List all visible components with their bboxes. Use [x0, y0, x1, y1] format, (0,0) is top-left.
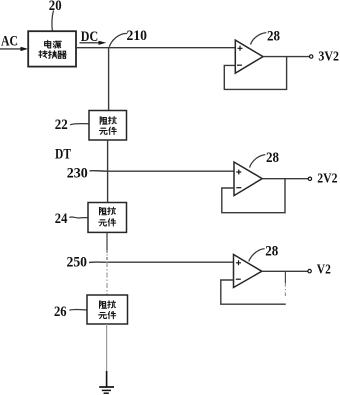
leader 28 top — [251, 33, 267, 45]
svg-text:28: 28 — [266, 150, 279, 166]
wire 250 to 26 vertical — [106, 262, 108, 295]
leader 26 — [69, 308, 87, 311]
feedback wire top op-amp — [224, 57, 286, 90]
op-amp 28 top — [235, 40, 263, 73]
svg-text:V2: V2 — [317, 262, 331, 277]
leader 20 — [52, 11, 54, 31]
impedance element 22 — [89, 111, 127, 141]
leader 28 middle — [250, 155, 266, 168]
impedance element 26 — [87, 295, 128, 324]
svg-text:2V2: 2V2 — [317, 170, 337, 185]
impedance element 24 — [88, 203, 127, 233]
output terminal 3V2 — [310, 55, 313, 58]
AC input arrow — [0, 47, 28, 51]
svg-text:26: 26 — [54, 304, 67, 320]
svg-text:250: 250 — [67, 255, 88, 271]
wire 26 to ground — [106, 324, 108, 371]
feedback dashed vertical bottom op-amp — [284, 271, 286, 283]
wire node 230 horizontal — [90, 170, 235, 173]
svg-text:28: 28 — [265, 244, 278, 260]
svg-text:3V2: 3V2 — [318, 48, 339, 63]
leader 24 — [69, 217, 88, 218]
wire node 250 horizontal — [89, 261, 234, 263]
output terminal 2V2 — [308, 177, 311, 180]
node 210 vertical wire — [108, 48, 110, 111]
wire DC bus — [76, 47, 235, 49]
DC arrow — [80, 41, 107, 45]
svg-text:230: 230 — [67, 166, 88, 182]
leader 22 — [70, 124, 89, 125]
feedback wire middle op-amp — [222, 179, 285, 213]
power converter 20 — [28, 31, 76, 66]
output terminal V2 — [308, 269, 311, 272]
wire 22 to 24 vertical — [107, 140, 109, 203]
svg-text:210: 210 — [127, 28, 148, 44]
svg-text:20: 20 — [49, 0, 62, 14]
svg-text:DT: DT — [55, 147, 71, 163]
leader 210 — [109, 34, 127, 47]
svg-text:24: 24 — [55, 211, 68, 227]
op-amp 28 bottom — [234, 255, 262, 288]
wire 24 to 250 vertical — [106, 232, 108, 250]
svg-text:22: 22 — [55, 117, 68, 133]
svg-text:28: 28 — [267, 28, 280, 44]
op-amp 28 middle — [234, 162, 262, 196]
output wire 3V2 — [263, 56, 309, 58]
feedback wire bottom op-amp — [221, 280, 286, 304]
output wire 2V2 — [262, 178, 308, 180]
svg-text:AC: AC — [1, 34, 18, 50]
leader 28 bottom — [249, 249, 265, 262]
ground — [99, 387, 114, 393]
output wire V2 — [262, 270, 308, 272]
